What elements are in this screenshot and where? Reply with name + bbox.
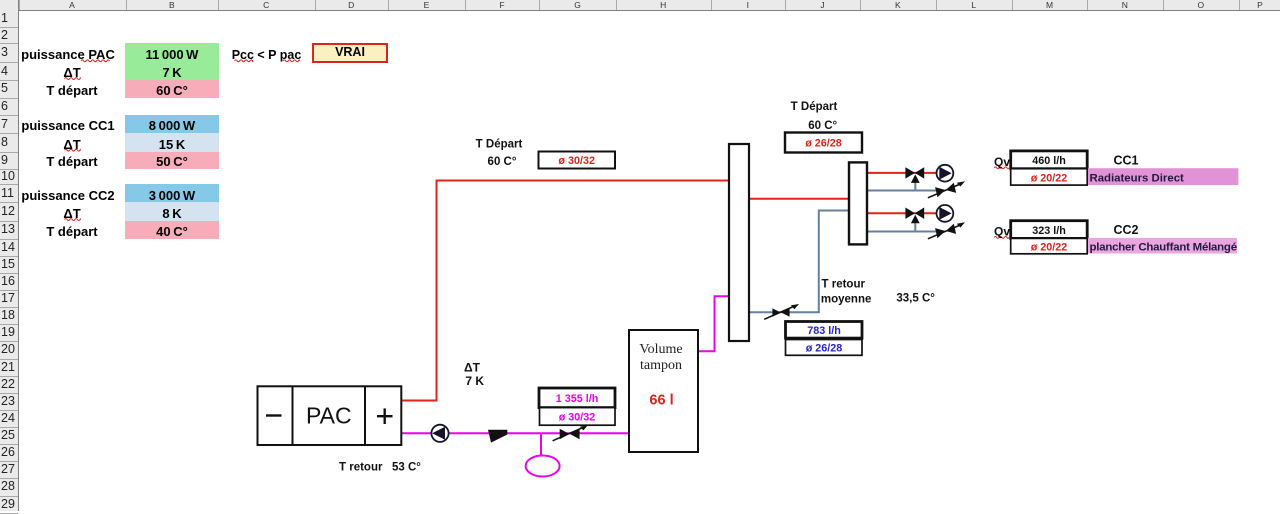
balancing valve on CC2 return (slanted) bbox=[935, 224, 956, 238]
wire: expansion vessel stem (magenta) bbox=[540, 433, 542, 456]
expansion vessel (magenta ellipse) bbox=[526, 456, 560, 477]
pipe label box "ø 20/22" (CC1) bbox=[1011, 169, 1087, 185]
flow label box "783 l/h" bbox=[786, 322, 863, 339]
svg-text:tampon: tampon bbox=[640, 358, 682, 373]
svg-text:783 l/h: 783 l/h bbox=[807, 325, 841, 337]
pipe label box "ø 26/28" (separator supply) bbox=[785, 133, 862, 153]
pump P1 on PAC return (triangle pointing left) bbox=[431, 425, 448, 442]
wire: buffer tank to separator (magenta) bbox=[698, 296, 729, 351]
svg-text:CC1: CC1 bbox=[1113, 153, 1138, 167]
svg-text:CC2: CC2 bbox=[1113, 223, 1138, 237]
svg-text:T Départ: T Départ bbox=[476, 138, 523, 150]
three-way mixing valve CC1 (bowtie on red + up arrow) bbox=[905, 167, 924, 190]
balancing valve on buffer inlet line bbox=[553, 425, 588, 441]
wire: CC1 return (blue) bbox=[866, 190, 936, 192]
svg-text:ΔT: ΔT bbox=[464, 360, 481, 374]
svg-text:ø 30/32: ø 30/32 bbox=[559, 412, 596, 424]
svg-text:ø 26/28: ø 26/28 bbox=[806, 342, 843, 354]
svg-text:60 C°: 60 C° bbox=[808, 120, 837, 132]
spellcheck squiggle under "ΔT" (A8) bbox=[65, 149, 81, 151]
three-way mixing valve CC2 (bowtie on red + up arrow) bbox=[905, 208, 924, 232]
pipe label box "ø 26/28" (return line) bbox=[786, 340, 863, 356]
spellcheck squiggle under "pac" (C3) bbox=[283, 60, 300, 62]
highlight band: plancher Chauffant Mélangé bbox=[1088, 238, 1237, 254]
flow label box "460 l/h" bbox=[1011, 151, 1087, 169]
svg-text:Qv: Qv bbox=[994, 224, 1010, 238]
svg-text:323 l/h: 323 l/h bbox=[1032, 225, 1066, 237]
svg-text:ø 26/28: ø 26/28 bbox=[805, 138, 842, 150]
svg-text:T retour: T retour bbox=[339, 461, 383, 473]
pipe label box "ø 20/22" (CC2) bbox=[1011, 238, 1087, 253]
distribution manifold bbox=[849, 162, 867, 244]
spellcheck squiggle under "Pcc" (C3) bbox=[235, 60, 254, 62]
svg-text:460 l/h: 460 l/h bbox=[1032, 155, 1066, 167]
wire: PAC return (magenta) buffer tank to PAC bbox=[401, 432, 629, 434]
wire: common return manifold to separator (blue) bbox=[749, 211, 849, 313]
flow label box "323 l/h" bbox=[1011, 221, 1087, 239]
wire: PAC supply (red) PAC top outlet up and across to separator bbox=[401, 181, 729, 401]
svg-text:T retour: T retour bbox=[822, 278, 866, 290]
spellcheck squiggle under "ΔT" (A12) bbox=[65, 219, 81, 221]
svg-text:1 355 l/h: 1 355 l/h bbox=[556, 393, 599, 405]
wire: CC2 return (blue) bbox=[866, 231, 936, 233]
svg-text:Volume: Volume bbox=[639, 342, 682, 357]
hydraulic separator (bouteille) bbox=[729, 144, 749, 341]
svg-text:ø 20/22: ø 20/22 bbox=[1031, 241, 1068, 253]
balancing valve on common return (slanted) bbox=[764, 304, 799, 319]
pipe label box "ø 30/32" (buffer line) bbox=[540, 408, 616, 426]
pump P3 on CC2 supply bbox=[937, 205, 954, 222]
svg-text:Radiateurs Direct: Radiateurs Direct bbox=[1090, 172, 1185, 184]
buffer tank "Volume tampon 66 l" bbox=[629, 330, 698, 452]
svg-text:33,5 C°: 33,5 C° bbox=[896, 292, 935, 304]
svg-text:moyenne: moyenne bbox=[821, 293, 872, 305]
svg-text:Qv: Qv bbox=[994, 155, 1010, 169]
svg-text:ø 30/32: ø 30/32 bbox=[558, 155, 595, 167]
svg-text:66 l: 66 l bbox=[649, 393, 673, 409]
svg-text:ø 20/22: ø 20/22 bbox=[1031, 172, 1068, 184]
balancing valve on CC1 return (slanted) bbox=[935, 183, 956, 197]
spellcheck squiggle under "ΔT" (A4) bbox=[65, 78, 81, 80]
svg-text:7 K: 7 K bbox=[465, 374, 484, 388]
check valve on PAC return bbox=[488, 430, 507, 443]
svg-text:PAC: PAC bbox=[306, 403, 352, 429]
pipe label box "ø 30/32" (supply line) bbox=[539, 152, 616, 169]
PAC heat pump box bbox=[258, 386, 402, 445]
svg-text:53 C°: 53 C° bbox=[392, 461, 421, 473]
wire: CC2 supply (red) bbox=[866, 212, 938, 214]
spellcheck squiggle under "Qv" (CC1) bbox=[994, 167, 1009, 169]
wire: CC1 supply (red) bbox=[866, 172, 938, 174]
highlight band: Radiateurs Direct bbox=[1088, 168, 1238, 185]
wire: separator to manifold supply (red) bbox=[749, 198, 849, 200]
svg-text:60 C°: 60 C° bbox=[488, 156, 517, 168]
flow label box "1 355 l/h" bbox=[539, 388, 615, 408]
svg-text:plancher Chauffant Mélangé: plancher Chauffant Mélangé bbox=[1090, 241, 1237, 253]
spellcheck squiggle under "PAC" (A3) bbox=[81, 60, 110, 62]
spellcheck squiggle under "Qv" (CC2) bbox=[994, 236, 1009, 238]
svg-text:T Départ: T Départ bbox=[791, 101, 838, 113]
pump P2 on CC1 supply bbox=[937, 165, 954, 182]
